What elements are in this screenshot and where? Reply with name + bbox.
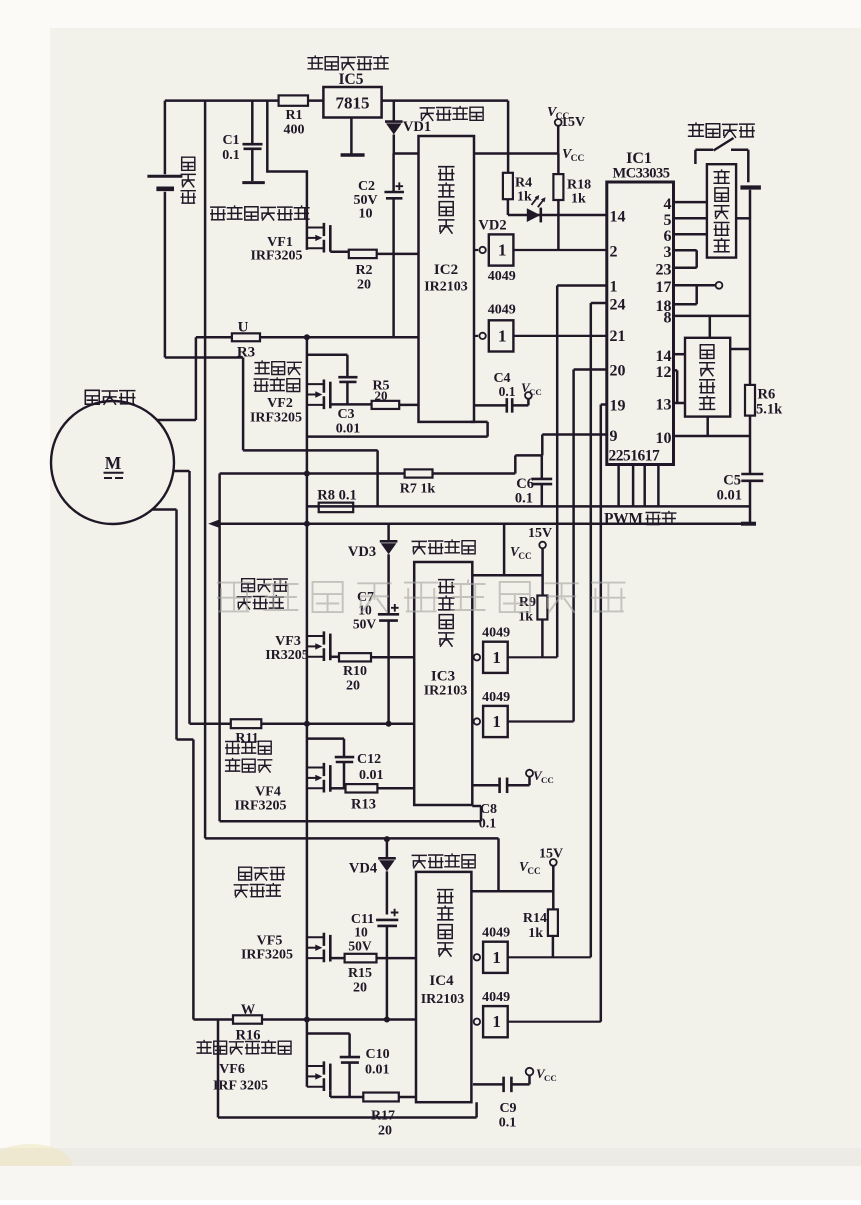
svg-text:4049: 4049 — [482, 926, 510, 941]
svg-text:0.01: 0.01 — [336, 422, 361, 437]
svg-text:R18: R18 — [567, 178, 591, 193]
capacitor C11 electrolytic — [376, 919, 398, 922]
label 高端场效应管 section3 — [239, 867, 285, 880]
svg-text:0.1: 0.1 — [515, 491, 533, 507]
wire pin8 branch to throttle box — [709, 316, 712, 338]
svg-text:R8 0.1: R8 0.1 — [317, 488, 356, 504]
battery 蓄电池 — [164, 101, 167, 358]
svg-text:CC: CC — [571, 154, 585, 164]
svg-text:21: 21 — [610, 328, 626, 345]
resistor R17 20 — [363, 1093, 399, 1102]
wire main bus with arrow — [208, 519, 220, 528]
svg-text:CC: CC — [544, 1073, 557, 1083]
svg-text:10: 10 — [359, 207, 373, 222]
LED VD indicator — [527, 208, 540, 222]
capacitor C7 electrolytic — [378, 613, 399, 616]
inverter 4049 upper section2 — [471, 656, 473, 658]
resistor R14 1k — [548, 909, 558, 936]
svg-text:IC3: IC3 — [431, 669, 455, 685]
svg-text:0.01: 0.01 — [359, 768, 384, 783]
svg-text:R11: R11 — [235, 731, 258, 746]
svg-text:9: 9 — [610, 428, 618, 445]
svg-text:14: 14 — [656, 348, 672, 365]
svg-text:IR2103: IR2103 — [421, 992, 465, 1007]
svg-text:17: 17 — [656, 279, 672, 296]
diode VD1 — [393, 101, 396, 122]
inverter 4049 lower section2 — [471, 720, 473, 722]
svg-text:6: 6 — [664, 228, 672, 245]
svg-text:1: 1 — [498, 326, 507, 345]
resistor R15 20 — [345, 954, 377, 963]
wire jog from rail to VF1 — [267, 101, 307, 250]
capacitor C10 — [307, 1034, 350, 1057]
wire motor U phase — [157, 337, 196, 420]
svg-text:0.1: 0.1 — [499, 1116, 517, 1131]
svg-text:4049: 4049 — [488, 269, 516, 284]
svg-text:VD3: VD3 — [348, 544, 376, 560]
transistor VF2 IRF3205 — [307, 383, 324, 385]
svg-text:1: 1 — [492, 948, 501, 967]
svg-text:VD4: VD4 — [349, 861, 377, 877]
svg-text:C3: C3 — [337, 407, 354, 422]
regulator label 三端稳压器 — [308, 56, 388, 70]
wire IC1 pin1 column — [557, 286, 607, 658]
svg-text:IC2: IC2 — [434, 262, 458, 278]
svg-text:R1: R1 — [285, 108, 302, 123]
svg-text:R7 1k: R7 1k — [400, 482, 436, 497]
svg-text:50V: 50V — [353, 617, 377, 632]
svg-text:IR3205: IR3205 — [265, 648, 309, 663]
wire battery bus vertical — [204, 101, 207, 839]
label 自举升压 section3 — [412, 854, 475, 868]
svg-text:R4: R4 — [515, 176, 532, 191]
svg-text:R13: R13 — [351, 797, 376, 813]
svg-text:5.1k: 5.1k — [756, 402, 783, 418]
inverter 4049 upper section3 — [471, 956, 472, 958]
capacitor C12 — [307, 739, 344, 757]
resistor R2 — [349, 250, 377, 258]
svg-text:15V: 15V — [561, 115, 585, 130]
motor 电动机 — [85, 390, 134, 404]
wire phase bus vertical long — [306, 337, 309, 1087]
svg-text:R9: R9 — [519, 595, 536, 610]
svg-text:MC33035: MC33035 — [613, 166, 670, 182]
svg-text:4049: 4049 — [482, 690, 510, 705]
wire IC1 pin5 to hall — [674, 217, 707, 220]
resistor R1 — [279, 95, 308, 105]
ground stub of 7815 — [350, 118, 353, 154]
svg-text:20: 20 — [353, 981, 367, 996]
switch 闸把开关 — [689, 123, 755, 137]
svg-text:IRF 3205: IRF 3205 — [213, 1079, 268, 1094]
wire battery to sense loop — [165, 358, 378, 507]
label 高端场效应管 section1 — [211, 206, 309, 220]
svg-text:19: 19 — [610, 398, 626, 415]
svg-text:IC4: IC4 — [429, 973, 454, 989]
wire pin14 with LED — [508, 214, 607, 217]
wire IC1 pin19 column — [601, 405, 607, 1022]
svg-text:R2: R2 — [355, 263, 372, 278]
svg-text:20: 20 — [346, 679, 360, 694]
svg-text:R14: R14 — [523, 911, 547, 926]
label 自举升压 section1 — [420, 107, 483, 121]
wire IC1 pin4 to hall — [674, 201, 707, 204]
svg-text:IC1: IC1 — [626, 150, 652, 167]
svg-text:7815: 7815 — [336, 94, 370, 113]
svg-text:IRF3205: IRF3205 — [241, 948, 293, 963]
svg-text:IC5: IC5 — [339, 71, 364, 88]
svg-text:CC: CC — [527, 866, 540, 876]
svg-text:4049: 4049 — [482, 626, 510, 641]
regulator IC5 7815 — [323, 87, 381, 118]
driver IC4 IR2103 box — [416, 872, 471, 1102]
wire VCC15 rail section1 — [394, 152, 559, 155]
wire IC2 COM return — [307, 422, 488, 437]
svg-text:C8: C8 — [480, 802, 497, 817]
svg-text:8: 8 — [664, 310, 672, 327]
svg-text:0.1: 0.1 — [222, 148, 240, 163]
svg-text:VF6: VF6 — [219, 1062, 245, 1077]
svg-text:1: 1 — [492, 712, 501, 731]
svg-text:50V: 50V — [348, 939, 372, 954]
svg-text:VF2: VF2 — [267, 396, 293, 411]
resistor R18 1k — [557, 154, 560, 175]
wire IC1 pin18 joined to pin17 — [674, 285, 697, 304]
svg-text:2: 2 — [610, 244, 618, 261]
svg-text:VF5: VF5 — [257, 934, 283, 949]
svg-text:C2: C2 — [358, 179, 375, 194]
hall box 电动机霍尔 — [707, 164, 736, 257]
throttle box 调速转把 — [685, 338, 730, 417]
svg-text:C1: C1 — [222, 133, 239, 148]
svg-text:14: 14 — [610, 209, 626, 226]
wire IC1 pin6 to hall — [674, 233, 707, 236]
wire PWM ground line — [307, 505, 751, 508]
wire IC1 pin17 test point — [674, 284, 716, 287]
driver IC2 IR2103 box — [419, 136, 475, 422]
svg-text:15V: 15V — [528, 526, 552, 541]
IC IC1 MC33035 — [607, 182, 674, 465]
wire top battery+ rail — [165, 99, 508, 102]
inverter 4049 lower section1 to pin21 — [474, 335, 478, 337]
wire throttle bottom to pin10 line — [706, 417, 709, 436]
svg-text:12: 12 — [656, 364, 672, 381]
capacitor C1 — [251, 101, 254, 144]
transistor VF6 IRF 3205 — [307, 1065, 324, 1067]
capacitor C2 electrolytic — [392, 154, 395, 192]
svg-text:VF3: VF3 — [275, 634, 301, 649]
svg-text:CC: CC — [541, 775, 554, 785]
wire IC1 pin20 column — [574, 370, 607, 722]
diode VD4 — [386, 839, 389, 858]
wire motor W phase — [152, 510, 193, 1020]
wire IC1 pin10 — [674, 435, 751, 438]
svg-text:20: 20 — [378, 1124, 392, 1139]
resistor R4 1k — [507, 101, 510, 173]
label 高端场效应管 section2 — [242, 579, 288, 592]
svg-text:1k: 1k — [571, 192, 586, 207]
resistor R7 1k — [220, 472, 405, 475]
svg-text:C5: C5 — [723, 473, 741, 489]
svg-text:1: 1 — [492, 648, 501, 667]
resistor R6 5.1k — [745, 385, 755, 416]
wire IC1 pin23 joined to pin3 — [674, 250, 697, 267]
svg-text:2251617: 2251617 — [609, 448, 661, 465]
watermark 州将睿科技有限公司 — [218, 580, 625, 612]
svg-text:400: 400 — [284, 123, 305, 138]
wires IC1 bottom pins to PWM line — [619, 465, 659, 507]
wire motor V phase — [173, 471, 189, 724]
label 低端场效应管 VF2 — [255, 361, 301, 374]
resistor R10 20 — [339, 653, 371, 661]
wire IC1 pin14r to throttle — [674, 353, 686, 356]
wire IC1 pin8 to switch — [674, 315, 750, 318]
svg-text:IRF3205: IRF3205 — [250, 411, 302, 426]
svg-text:1k: 1k — [528, 926, 543, 941]
svg-text:20: 20 — [357, 278, 371, 293]
svg-text:1k: 1k — [517, 190, 532, 205]
svg-text:C9: C9 — [499, 1101, 516, 1116]
svg-text:0.1: 0.1 — [499, 384, 516, 399]
svg-text:1: 1 — [492, 1012, 501, 1031]
svg-text:10: 10 — [354, 925, 368, 940]
svg-text:IR2103: IR2103 — [424, 280, 468, 295]
wire IC4 COM bottom rail — [218, 1020, 477, 1118]
capacitor C9 to VCC — [473, 1083, 503, 1086]
capacitor C5 — [741, 473, 763, 476]
svg-text:R17: R17 — [371, 1109, 395, 1124]
svg-text:20: 20 — [610, 363, 626, 380]
svg-text:M: M — [105, 453, 122, 473]
svg-text:R10: R10 — [343, 664, 367, 679]
svg-text:0.01: 0.01 — [717, 488, 742, 504]
svg-text:4: 4 — [664, 196, 672, 213]
svg-text:1: 1 — [498, 241, 507, 260]
svg-text:0.01: 0.01 — [365, 1063, 390, 1078]
svg-text:4049: 4049 — [482, 990, 510, 1005]
svg-text:VD2: VD2 — [478, 218, 506, 234]
wire switch to R6 column — [749, 190, 752, 385]
svg-text:C10: C10 — [366, 1047, 390, 1062]
svg-text:IR2103: IR2103 — [424, 684, 468, 699]
svg-text:VF4: VF4 — [255, 785, 281, 800]
svg-text:23: 23 — [656, 262, 672, 279]
wire ground drop column — [218, 474, 221, 822]
svg-text:13: 13 — [656, 397, 672, 414]
resistor R13 — [346, 784, 378, 792]
wire IC1 pin3 — [674, 249, 697, 252]
svg-text:CC: CC — [518, 551, 531, 561]
svg-text:4049: 4049 — [488, 303, 516, 318]
capacitor C4 to VCC — [474, 404, 506, 407]
wire IC3 COM return — [220, 806, 481, 821]
label 低端场效应管 section3 — [197, 1041, 291, 1054]
svg-text:3: 3 — [664, 244, 672, 261]
svg-text:5: 5 — [664, 212, 672, 229]
inverter 4049 lower section3 — [471, 1021, 472, 1023]
wire IC1 pin9 sense path — [515, 435, 607, 474]
svg-text:VD1: VD1 — [403, 119, 431, 135]
wire IC1 pin24 column — [591, 303, 607, 957]
svg-text:1: 1 — [610, 279, 618, 296]
svg-text:24: 24 — [610, 297, 626, 314]
diode VD3 — [387, 524, 390, 541]
capacitor C3 — [307, 355, 348, 377]
svg-text:10: 10 — [656, 430, 672, 447]
transistor VF4 IRF3205 — [307, 767, 324, 769]
svg-text:CC: CC — [529, 387, 542, 397]
driver IC3 IR2103 box — [414, 562, 472, 805]
svg-text:C12: C12 — [357, 752, 381, 767]
capacitor C8 to VCC — [472, 784, 499, 787]
wire IC1 pin12 pin13 bracket — [674, 370, 686, 403]
transistor VF1 IRF3205 — [307, 227, 324, 229]
resistor R9 1k — [537, 596, 547, 620]
wire bus to IC3 vcc feeder — [471, 524, 542, 576]
svg-text:R6: R6 — [758, 387, 776, 403]
svg-text:IRF3205: IRF3205 — [234, 799, 286, 814]
node V with resistor R11 — [190, 722, 231, 725]
capacitor C6 — [541, 455, 544, 478]
label 低端场效应管 VF4 — [226, 741, 271, 754]
label 自举升压 section2 — [412, 540, 475, 554]
svg-text:R15: R15 — [348, 966, 372, 981]
wire section3 vcc rail — [205, 838, 553, 891]
svg-text:IRF3205: IRF3205 — [250, 249, 302, 264]
